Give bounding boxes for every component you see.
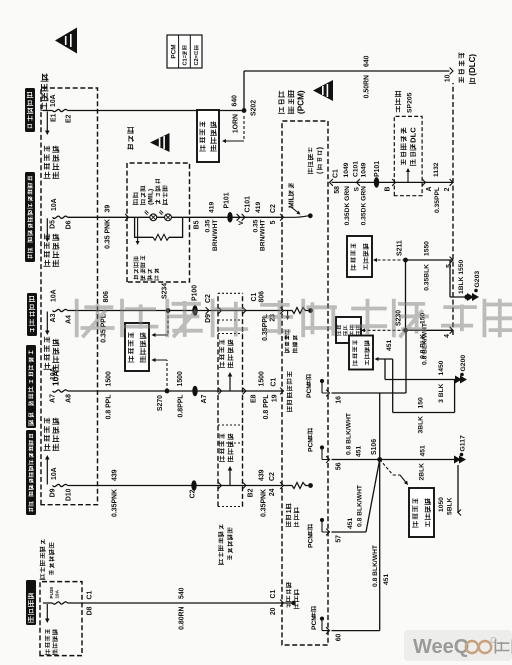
power label above D9/D10 <box>26 430 36 515</box>
pin 4 <box>444 334 451 338</box>
label 0.35 PNK <box>105 219 112 249</box>
PCM ground pin 60 terminal + PCM接地 <box>311 606 330 634</box>
label 0.35PNK pcm <box>261 489 268 517</box>
dashed arrow S270 to harness box <box>152 358 168 391</box>
chevron MIL into PCM <box>280 214 283 221</box>
warning triangle top right <box>55 28 77 54</box>
text 故障指示灯(MIL)立即维修发动机 <box>133 179 168 205</box>
chevron DLC pin 5 <box>450 257 453 264</box>
wire G200 drop <box>385 379 455 381</box>
pin 5 <box>270 220 277 224</box>
label 540 <box>179 587 186 599</box>
label 451 g117 <box>420 445 427 456</box>
chevron out of DLC comm box <box>422 179 425 186</box>
text 数据流端子(DLC) <box>458 53 477 84</box>
strip arrow left at E1/E2 <box>44 112 60 179</box>
label C101 MIL <box>238 196 252 225</box>
label 1132 <box>433 162 440 177</box>
connector oval P101 serial <box>374 177 379 188</box>
pin 10 <box>445 74 452 82</box>
label 0.35 BRN/WHT lower <box>253 219 267 251</box>
text 仪表板和控制台的代表组件 <box>133 256 159 280</box>
connector oval C2 ign1 <box>191 480 196 491</box>
label 0.35BLK <box>424 264 431 291</box>
text 启动继电器 <box>284 335 297 352</box>
wire battery 0.8 ORN 540 <box>43 602 282 604</box>
pin 5 dlc <box>446 264 453 268</box>
wire inside instrument panel <box>129 216 190 218</box>
label 0.50RN <box>364 75 371 98</box>
pin C1 battery <box>270 590 277 599</box>
chevron C101 serial <box>357 179 360 186</box>
wire crank 0.8 PPL 1500 <box>68 390 283 392</box>
chevron into instrument box <box>125 214 128 221</box>
terminal D6 <box>66 220 73 229</box>
pin C1 serial <box>333 169 340 178</box>
chevron crank into PCM <box>280 388 283 395</box>
label 451 pin16 link <box>386 340 393 351</box>
label S234 <box>162 283 169 299</box>
arrow inside DLC comm box <box>406 168 410 182</box>
wire 5BLK 1050 to G117 <box>458 465 461 516</box>
pin 19 <box>272 394 279 402</box>
label 0.8 BLK/WHT pin57 <box>357 484 364 527</box>
MIL bulb 2 <box>159 210 171 220</box>
label 保险丝盒 <box>41 74 49 111</box>
label 451 pin57 <box>347 518 354 529</box>
pin C2 MIL <box>270 204 277 213</box>
harness ground box S230 <box>336 317 361 343</box>
label 1050 <box>438 497 445 512</box>
wire S211 to DLC pin 5 <box>406 259 454 261</box>
ground bus horizontal <box>379 393 381 631</box>
wire ign1 0.35 PNK 439 <box>68 485 283 487</box>
power label above D5/D6 <box>25 172 35 262</box>
arrow to cluster components <box>136 217 140 245</box>
label PU38 19A <box>49 587 60 599</box>
terminal E1 <box>51 113 58 122</box>
pin C2 ign1 <box>269 472 276 481</box>
terminal A8 <box>66 394 73 403</box>
wire pin16 down <box>332 392 407 394</box>
label 10A A7/A8 <box>50 367 57 380</box>
chevron DLC pin 2 <box>450 179 453 186</box>
power label 起动时通电 <box>25 88 35 132</box>
label 0.35 BRN/WHT upper <box>205 219 220 251</box>
wire pin57 down <box>332 460 380 533</box>
terminal A serial <box>426 186 433 191</box>
connector oval A7 <box>192 386 197 397</box>
harness corridor dashed line bottom <box>242 293 244 506</box>
wire S230 to DLC pin 4 <box>406 329 454 331</box>
harness power box S270/S234 shared <box>125 323 149 371</box>
terminal C1 underhood <box>87 591 94 600</box>
text 接线板 SP205 <box>395 91 414 113</box>
label S211 <box>397 240 404 256</box>
strip arrow left at A3/A4 <box>44 312 61 387</box>
label P100 <box>192 285 199 301</box>
instrument panel box (dashed) <box>127 163 190 282</box>
label S106 <box>371 439 378 455</box>
chevron C101 MIL <box>237 214 245 221</box>
MIL driver symbol <box>284 207 313 218</box>
text 发动机罩下的附件接线盒 (corridor) <box>218 524 233 564</box>
terminal D10 <box>66 488 73 501</box>
label 0.8 BLK/WHT pin16 <box>422 322 429 365</box>
label 1450 <box>438 360 445 375</box>
splice S230 <box>403 328 408 333</box>
splice S211 <box>403 258 408 263</box>
wire S202 branch to ORN <box>243 71 245 111</box>
fuse D9/D10 10A <box>53 484 68 486</box>
pin 24 <box>269 488 276 496</box>
PCM title 动力控制模块 <box>278 90 305 114</box>
label G200 <box>460 355 467 377</box>
label 0.8 PPL <box>106 395 113 420</box>
pin 23 <box>270 314 277 322</box>
text 发动机罩下的附件接线盒 (top box) <box>40 539 55 579</box>
label 1500 mid <box>177 371 184 386</box>
ground G203 <box>464 293 479 301</box>
splice S202 <box>242 108 247 113</box>
chevron ign1 into PCM <box>280 482 283 489</box>
resistor ign1 (PCM input) <box>284 483 313 489</box>
PCM ground pin 16 terminal + PCM接地 <box>306 374 330 398</box>
corridor chevrons ign1 <box>218 482 246 489</box>
pin 58 <box>334 186 341 194</box>
dashed arrow S202 to harness box <box>222 116 244 143</box>
label 10A E1/E2 <box>50 94 57 107</box>
harness power box S202 <box>197 110 219 162</box>
underhood junction box (dashed) <box>40 582 82 656</box>
wire E1/E2 1 ORN 640 <box>43 110 244 112</box>
label P101 MIL <box>224 192 231 208</box>
ground G200 <box>455 376 467 384</box>
resistor 806 (PCM input) <box>284 308 313 314</box>
label 10A A3/A4 <box>51 289 58 302</box>
corridor arrow ign1 <box>219 434 234 486</box>
label 451 bus <box>383 574 390 585</box>
wire pin56 down to S106 <box>332 459 380 461</box>
label 0.8 PPL mid <box>178 395 185 418</box>
label 0.35PPL pcm <box>262 314 269 341</box>
label 0.8 BLK/WHT pin56 <box>346 412 353 455</box>
label 0.8 BLK pin4 <box>420 334 427 359</box>
terminal E2 <box>66 114 73 123</box>
text 蓄电池正极电压 <box>286 582 300 608</box>
warning triangle instrument panel <box>150 133 170 152</box>
battery pin terminal dot <box>284 601 296 605</box>
text MIL控制 <box>288 183 295 208</box>
label 0.35PPL serial <box>434 187 441 213</box>
PCM connector legend box <box>167 35 202 68</box>
chevron D9/C2 <box>206 307 209 314</box>
label G117 <box>460 435 467 456</box>
text 串行数据(第二代) <box>308 147 324 174</box>
power label above A7/A8 <box>26 345 36 428</box>
label C101 serial <box>353 161 360 177</box>
label 419 upper <box>209 202 216 213</box>
terminal B2 <box>248 488 255 497</box>
terminal A7 <box>50 394 57 403</box>
warning triangle PCM <box>313 80 333 101</box>
terminal A3 <box>50 313 57 322</box>
label 806 pcm <box>259 291 266 303</box>
label 150 pin4 <box>420 313 427 324</box>
terminal B serial <box>385 186 392 191</box>
arrow branch inside PCM 806 <box>286 311 290 321</box>
fuse box strip (dashed) <box>41 88 98 505</box>
label 640 e12 <box>232 95 239 107</box>
power label 始终通电 <box>26 580 36 625</box>
pin 2 <box>444 187 451 191</box>
label 1500 <box>106 371 113 386</box>
dashed arrow S211 to ground box <box>373 258 406 262</box>
dashed arrow S234 to harness box <box>152 311 169 338</box>
harness ground box J1 <box>349 336 373 370</box>
watermark WeeQoo维库 logo <box>404 630 512 661</box>
pin 20 <box>270 607 277 615</box>
label 1550 s211 <box>424 241 431 256</box>
terminal A4 <box>66 315 73 324</box>
label 39 <box>105 205 112 213</box>
DLC line (dashed) <box>452 83 454 335</box>
text 点火1正极电压 <box>286 503 300 526</box>
DLC comm box (dashed) <box>394 116 422 195</box>
pin C1 806 <box>251 293 258 302</box>
dashed arrow S230 to ground box <box>361 328 406 332</box>
wire pin60 down <box>332 630 380 632</box>
wire 150 drop <box>393 380 455 413</box>
pin C1 crank <box>271 378 278 387</box>
pin 16 <box>336 396 343 404</box>
corridor chevrons 806 <box>218 307 246 314</box>
chevron serial at PCM <box>330 179 333 186</box>
label 1500 pcm <box>259 371 266 386</box>
terminal A7 at oval <box>201 394 208 403</box>
corridor cap at D9/D10 box <box>218 334 243 507</box>
fuse A3/A4 10A <box>53 309 68 311</box>
label 0.35 PPL <box>101 314 108 343</box>
label 仪表板 <box>127 127 134 150</box>
PCM box (dashed) <box>282 121 328 645</box>
connector oval P101 MIL <box>227 212 232 223</box>
label 0.35DK GRN lower <box>361 186 368 226</box>
resistor parallel branch <box>135 217 183 240</box>
power label 蓄电池通电 <box>27 293 37 336</box>
harness ground box S106 <box>409 488 434 537</box>
terminal D5 <box>50 220 57 229</box>
label 806 top <box>103 291 110 303</box>
wire serial data <box>332 181 454 183</box>
terminal D9 at chevron <box>205 314 212 323</box>
text 数据通信系统中的DLC <box>400 127 417 166</box>
label G203 <box>474 271 481 293</box>
wire S106 to G117 <box>380 459 454 461</box>
fuse E1/E2 10A <box>53 109 68 111</box>
label 1049 lower <box>361 162 368 177</box>
corridor chevrons crank <box>218 388 246 395</box>
label 2BLK <box>419 463 426 481</box>
label 3BLK 150 <box>418 397 425 433</box>
label 0.8 BLK/WHT bus <box>372 544 379 587</box>
wire branch to G203 <box>450 260 466 297</box>
fuse PU38 19A (underhood) <box>53 602 68 604</box>
ground G117 <box>454 456 466 464</box>
label 1BLK 1550 <box>458 260 465 294</box>
strip arrow left at D5/D6 <box>44 218 60 266</box>
label 0.35PNK <box>112 489 119 517</box>
wire 806 0.35 PPL <box>68 310 283 312</box>
arrow J1 to ground box <box>375 357 393 361</box>
label P101 serial <box>374 161 381 177</box>
fuse A7/A8 10A <box>53 390 68 392</box>
label 10A D9/D10 <box>51 467 58 480</box>
text 点火起动电源 <box>287 371 293 411</box>
chevron into DLC comm box <box>392 179 395 186</box>
terminal E8 <box>251 394 258 403</box>
label S230 <box>396 310 403 326</box>
MIL bulb 1 <box>145 210 157 220</box>
label 439 <box>112 469 119 481</box>
label 0.35DK GRN upper <box>344 186 351 226</box>
label 1ORN <box>233 114 240 133</box>
strip arrow right at D9/D10 <box>44 418 60 485</box>
label S270 <box>157 395 164 411</box>
PCM ground pin 57 terminal + PCM接地 <box>307 518 329 548</box>
wire MIL B5 to PCM <box>190 216 283 218</box>
wire MIL fuse to instrument box <box>68 216 128 218</box>
corridor cap at A3/A4 box <box>218 293 243 320</box>
pin 56 <box>336 462 343 470</box>
connector oval P100 <box>192 305 197 316</box>
splice S106 <box>377 457 382 462</box>
terminal D8 <box>87 606 94 615</box>
label 0.80RN <box>179 606 186 629</box>
wire S230 to S211 <box>405 260 407 330</box>
wire 0.5 ORN 640 <box>244 70 450 72</box>
label 0.8 PPL pcm <box>263 395 270 420</box>
splice S270 <box>165 389 170 394</box>
harness ground box S211 <box>347 236 372 277</box>
label 10A D5/D6 <box>51 198 58 211</box>
label 5BLK <box>447 497 454 515</box>
terminal B5 <box>194 220 201 229</box>
underhood box internal arrow + 线束系的电源布线 <box>45 604 58 655</box>
dashed arrow S106 to ground box <box>380 460 408 486</box>
label 451 pin56 <box>356 446 363 457</box>
wire pin16 link to S230 <box>405 330 407 393</box>
fuse D5/D6 10A <box>53 216 68 218</box>
label 1049 upper <box>343 162 350 177</box>
label 439 pcm <box>259 469 266 481</box>
text 起动后起转 <box>284 329 297 345</box>
label 3 BLK g200 <box>438 383 445 402</box>
chevron DLC pin 10 <box>450 68 453 75</box>
svg-text:WeeQ: WeeQ <box>413 636 469 658</box>
wire J1 horizontals <box>385 359 393 413</box>
corridor arrow crank <box>219 340 234 392</box>
terminal C2 at chevron <box>205 294 212 303</box>
pin 57 <box>336 535 343 543</box>
pin 60 <box>336 633 343 641</box>
label 640 orn <box>364 55 371 67</box>
chevron DLC pin 4 <box>450 327 453 334</box>
PCM ground pin 56 terminal + PCM接地 <box>307 428 329 463</box>
terminal D9 <box>50 488 57 497</box>
chevron battery into PCM <box>280 600 283 607</box>
terminal C2 at oval ign1 <box>190 489 197 498</box>
harness corridor dashed line top <box>217 293 219 506</box>
chevron 806 into PCM <box>280 307 283 314</box>
label 419 lower <box>255 202 262 213</box>
label S202 <box>251 100 258 116</box>
terminal S at C101 <box>354 186 361 191</box>
splice S234 <box>166 308 171 313</box>
